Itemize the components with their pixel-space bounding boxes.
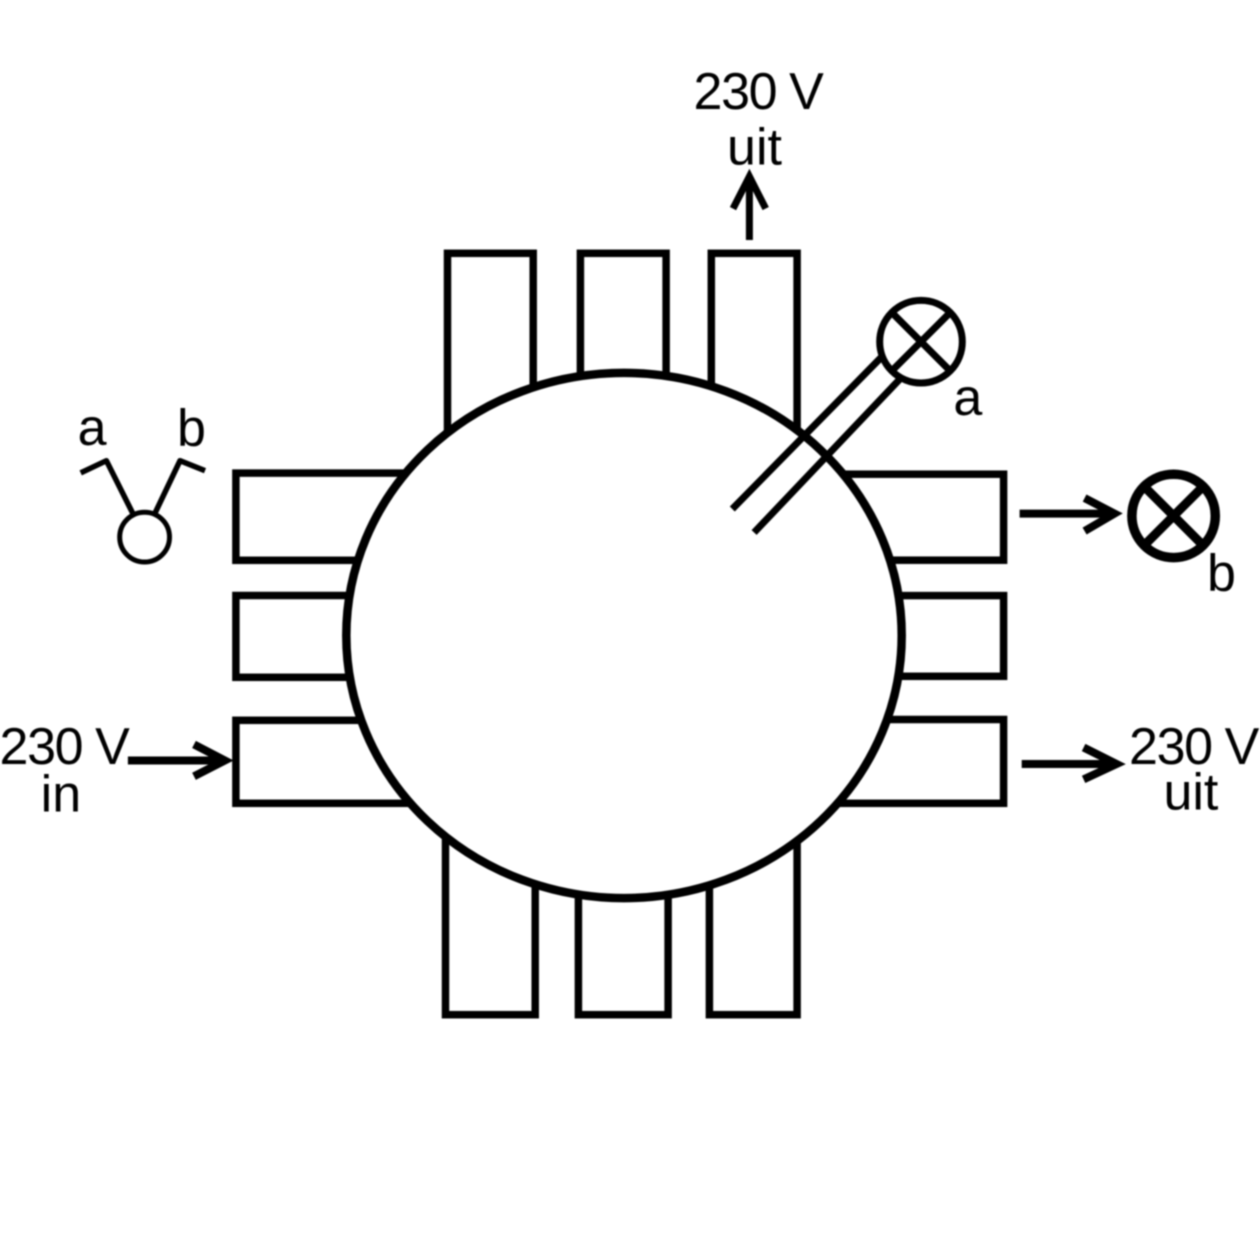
wire to lamp a (upper conductor) [732, 355, 884, 510]
cable entry rectangle left-1 [236, 473, 420, 560]
lamp a symbol [880, 300, 963, 383]
cable entry rectangle top-3 [711, 253, 797, 483]
cable entry rectangle right-2 [834, 596, 1004, 677]
arrow 230V uit (top) [733, 177, 766, 241]
cable entry rectangle bottom-1 [446, 790, 536, 1015]
lamp b symbol [1132, 474, 1215, 557]
arrow to lamp b (right middle) [1020, 498, 1115, 531]
switch S1 contact arm b [155, 461, 205, 514]
cable entry rectangle top-2 [580, 253, 666, 483]
arrow 230V in (left) [128, 744, 225, 776]
arrow 230V uit (right bottom) [1022, 748, 1117, 780]
switch S1 contact arm a [81, 461, 134, 515]
svg-text:in: in [41, 765, 81, 823]
svg-text:230 V: 230 V [694, 63, 825, 121]
wire to lamp a (lower conductor) [754, 379, 900, 533]
svg-text:a: a [953, 369, 982, 427]
cable entry rectangle top-1 [448, 253, 534, 483]
svg-text:b: b [177, 400, 206, 458]
switch S1 circle [120, 512, 170, 562]
cable entry rectangle left-2 [236, 596, 420, 678]
cable entry rectangle bottom-2 [578, 790, 668, 1015]
svg-text:uit: uit [1163, 763, 1218, 821]
svg-text:a: a [78, 399, 107, 457]
cable entry rectangle right-3 [834, 720, 1004, 804]
svg-text:uit: uit [727, 119, 782, 177]
svg-text:b: b [1207, 544, 1236, 602]
junction box circle [346, 373, 901, 898]
cable entry rectangle left-3 [236, 720, 420, 803]
cable entry rectangle bottom-3 [709, 790, 797, 1015]
cable entry rectangle right-1 [834, 474, 1004, 560]
